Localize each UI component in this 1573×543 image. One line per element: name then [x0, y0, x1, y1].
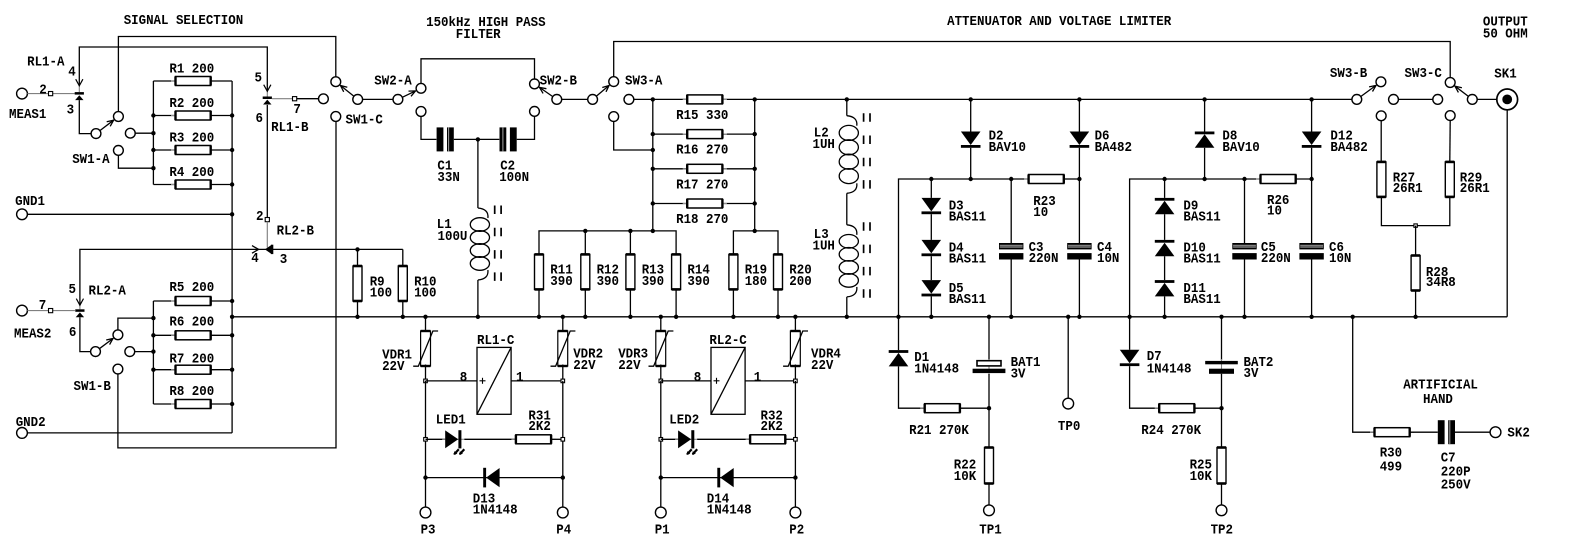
svg-text:RL2-B: RL2-B — [277, 223, 315, 239]
wire D14 row — [661, 477, 796, 479]
svg-text:33N: 33N — [437, 170, 459, 186]
relay contact RL1-B — [263, 97, 272, 105]
svg-text:250V: 250V — [1441, 478, 1471, 494]
battery BAT1 — [973, 359, 1006, 375]
wire R16 left — [653, 133, 687, 135]
relay contact RL1-A — [75, 92, 84, 100]
wire R4 right — [211, 184, 232, 186]
svg-text:6: 6 — [69, 325, 77, 341]
varistor VDR3 — [649, 331, 674, 366]
wire to C3 — [1010, 179, 1012, 243]
svg-text:SW3-B: SW3-B — [1330, 66, 1368, 82]
wire D4 to D5 — [930, 256, 932, 280]
junction — [1219, 406, 1223, 410]
arrow RL2-A pin 5 — [76, 299, 83, 306]
wire D5 to bus — [930, 296, 932, 316]
svg-text:HAND: HAND — [1423, 392, 1453, 408]
wire R1 left — [153, 80, 175, 82]
inductor L2 — [839, 113, 870, 196]
svg-text:SW1-C: SW1-C — [346, 112, 384, 128]
svg-text:10N: 10N — [1097, 251, 1119, 267]
svg-text:R17 270: R17 270 — [676, 177, 728, 193]
wire bus to BAT2 — [1221, 317, 1223, 360]
wire BAT2 to R25 — [1221, 374, 1223, 448]
resistor R13 — [626, 254, 635, 289]
diode D10 — [1155, 240, 1175, 256]
wire R16 right — [723, 133, 755, 135]
node RL1-C pin8 — [424, 379, 428, 383]
svg-text:GND2: GND2 — [16, 415, 46, 431]
svg-text:220N: 220N — [1029, 251, 1059, 267]
wire to D3 — [930, 179, 932, 198]
resistor R22 — [985, 448, 994, 484]
wire R1 right — [211, 80, 232, 82]
svg-text:BAS11: BAS11 — [1183, 292, 1220, 308]
node RL2-C pin8 — [659, 379, 663, 383]
terminal TP0 — [1063, 398, 1074, 409]
wire D10 to D11 — [1164, 256, 1166, 280]
svg-text:4: 4 — [251, 251, 259, 267]
junction — [1242, 177, 1246, 181]
resistor R9 — [353, 266, 362, 301]
svg-text:22V: 22V — [618, 358, 641, 374]
resistor R17 — [683, 164, 727, 173]
svg-text:1N4148: 1N4148 — [473, 503, 518, 519]
inductor L1 — [470, 206, 501, 283]
junction — [753, 97, 757, 101]
svg-text:2K2: 2K2 — [761, 419, 783, 435]
junction — [753, 167, 757, 171]
wire C6 to bus — [1311, 260, 1313, 317]
junction — [793, 315, 797, 319]
wire D9 to D10 — [1164, 214, 1166, 240]
junction — [651, 229, 655, 233]
wire to C5 — [1244, 179, 1246, 243]
wire R27 R29 join — [1381, 197, 1449, 226]
switch SW1-A — [91, 112, 123, 139]
wire to LED1 — [426, 438, 446, 440]
resistor R3 — [171, 146, 215, 155]
svg-text:R8 200: R8 200 — [169, 384, 214, 400]
junction — [628, 315, 632, 319]
wire RL1-A pin4 stub — [78, 86, 80, 92]
wire R19 bottom — [732, 289, 734, 316]
resistor R27 — [1377, 162, 1386, 197]
svg-text:8: 8 — [460, 370, 468, 386]
wire R12 bottom — [584, 289, 586, 316]
node RL1-C pin1 — [561, 379, 565, 383]
wire R18 left — [653, 203, 687, 205]
node LED1 left — [424, 438, 428, 442]
svg-text:BAS11: BAS11 — [1183, 252, 1220, 268]
resistor R16 — [683, 130, 727, 139]
svg-text:50 OHM: 50 OHM — [1483, 27, 1528, 43]
wire to RL1-C pin 8 — [426, 380, 478, 382]
wire — [118, 37, 335, 112]
wire D13 row — [426, 477, 563, 479]
junction — [1077, 177, 1081, 181]
LED LED1 — [442, 430, 465, 455]
junction — [1351, 315, 1355, 319]
wire R10 top — [402, 249, 404, 266]
switch SW1-B contact lower — [113, 364, 123, 374]
wire R30 to C7 — [1410, 431, 1438, 433]
svg-text:1UH: 1UH — [813, 137, 835, 153]
svg-text:MEAS2: MEAS2 — [14, 327, 51, 343]
wire VDR1 to coil rail — [425, 365, 427, 381]
wire — [634, 98, 653, 100]
svg-text:100N: 100N — [499, 170, 529, 186]
svg-text:220N: 220N — [1261, 251, 1291, 267]
junction — [230, 113, 234, 117]
diode D1 — [889, 350, 909, 366]
wire R9 top — [357, 249, 359, 266]
connector SK1 — [1497, 89, 1518, 110]
svg-text:1: 1 — [516, 370, 524, 386]
wire VDR4 to coil rail — [794, 365, 796, 381]
junction — [151, 316, 155, 320]
svg-text:ATTENUATOR AND VOLTAGE LIMITER: ATTENUATOR AND VOLTAGE LIMITER — [947, 14, 1172, 30]
capacitor C4 — [1067, 243, 1091, 260]
varistor VDR4 — [783, 331, 808, 366]
wire to D9 — [1164, 179, 1166, 198]
svg-text:1N4148: 1N4148 — [1147, 361, 1192, 377]
resistor R21 — [920, 404, 964, 413]
svg-text:R5 200: R5 200 — [169, 280, 214, 296]
junction — [230, 368, 234, 372]
wire D12 to C6 — [1311, 148, 1313, 243]
wire bus to VDR2 — [562, 317, 564, 333]
junction — [230, 148, 234, 152]
svg-text:TP1: TP1 — [979, 523, 1001, 539]
wire rail to D12 — [1311, 99, 1313, 131]
wire — [1398, 98, 1432, 100]
svg-text:200: 200 — [789, 274, 811, 290]
svg-text:390: 390 — [642, 274, 664, 290]
svg-text:499: 499 — [1380, 459, 1402, 475]
junction — [151, 148, 155, 152]
resistor R31 — [511, 435, 555, 444]
junction — [1009, 177, 1013, 181]
wire C7 to SK2 — [1455, 431, 1490, 433]
svg-text:10: 10 — [1033, 205, 1048, 221]
resistor R23 — [1024, 175, 1068, 184]
svg-text:8: 8 — [694, 370, 702, 386]
junction — [1162, 315, 1166, 319]
relay contact RL2-A — [75, 309, 84, 317]
diode D13 — [483, 468, 499, 488]
svg-text:FILTER: FILTER — [456, 27, 501, 43]
varistor VDR1 — [413, 331, 438, 366]
wire VDR3 to coil rail — [660, 365, 662, 381]
terminal SK2 — [1490, 427, 1501, 438]
wire bus to D1 — [898, 317, 900, 350]
svg-text:R1 200: R1 200 — [169, 62, 214, 78]
resistor R19 — [729, 254, 738, 289]
junction — [151, 333, 155, 337]
wire GND1 — [27, 213, 232, 215]
wire RL1-C pin 1 — [511, 380, 563, 382]
wire R26 to D12 line — [1295, 178, 1311, 180]
wire — [562, 98, 588, 100]
varistor VDR2 — [551, 331, 576, 366]
terminal GND1 — [17, 209, 28, 220]
wire C4 to bus — [1078, 260, 1080, 317]
junction — [1242, 315, 1246, 319]
wire R14 bottom — [675, 289, 677, 316]
inductor L3 — [839, 222, 870, 299]
wire left column down to P3 — [425, 381, 427, 507]
junction — [1009, 315, 1013, 319]
junction — [651, 148, 655, 152]
switch SW3-A contact right — [624, 95, 634, 105]
svg-text:180: 180 — [745, 274, 767, 290]
resistor R15 — [683, 95, 727, 104]
wire — [135, 351, 154, 353]
wire R13 bottom — [629, 289, 631, 316]
junction — [1077, 315, 1081, 319]
junction — [776, 315, 780, 319]
wire R3 right — [211, 149, 232, 151]
svg-text:3: 3 — [280, 252, 288, 268]
wire R21 to BAT1 node — [960, 407, 989, 409]
switch SW3-C — [1445, 78, 1477, 105]
junction — [355, 315, 359, 319]
wire bus to BAT1 — [988, 317, 990, 360]
junction — [230, 333, 234, 337]
wire L1 to bus — [477, 280, 479, 317]
junction — [1066, 315, 1070, 319]
svg-text:TP0: TP0 — [1058, 419, 1080, 435]
svg-text:10K: 10K — [954, 469, 977, 485]
wire D3 to D4 — [930, 214, 932, 240]
svg-text:22V: 22V — [811, 358, 834, 374]
switch SW3-C contact lower — [1445, 111, 1455, 121]
junction — [845, 315, 849, 319]
wire VDR2 to coil rail — [562, 365, 564, 381]
junction — [230, 182, 234, 186]
svg-text:7: 7 — [293, 102, 301, 118]
diode D3 — [922, 198, 942, 214]
junction — [753, 229, 757, 233]
junction D8 top — [1202, 97, 1206, 101]
svg-text:R6 200: R6 200 — [169, 314, 214, 330]
svg-text:4: 4 — [68, 65, 76, 81]
junction — [423, 315, 427, 319]
junction — [583, 229, 587, 233]
capacitor C1 — [437, 127, 454, 151]
junction — [987, 315, 991, 319]
svg-text:10K: 10K — [1190, 469, 1213, 485]
junction — [561, 315, 565, 319]
switch SW2-B contact lower — [530, 107, 540, 117]
junction — [896, 315, 900, 319]
battery BAT2 — [1205, 359, 1238, 375]
wire R2 left — [153, 115, 175, 117]
svg-text:R24 270K: R24 270K — [1141, 423, 1201, 439]
wire SK1 to bus — [1506, 110, 1508, 317]
net R1-R4 left bus — [152, 81, 154, 185]
svg-text:1: 1 — [754, 370, 762, 386]
svg-text:GND1: GND1 — [15, 194, 45, 210]
contact circle RL1-B output — [319, 94, 329, 104]
wire R20 bottom — [777, 289, 779, 316]
terminal MEAS2 — [17, 305, 28, 316]
wire D7 to R24 — [1130, 366, 1160, 408]
svg-text:R2 200: R2 200 — [169, 96, 214, 112]
junction L2 top — [845, 97, 849, 101]
svg-text:TP2: TP2 — [1211, 523, 1233, 539]
switch SW3-B contact right — [1389, 95, 1399, 105]
junction — [1309, 315, 1313, 319]
terminal P3 — [420, 507, 431, 518]
svg-text:P3: P3 — [421, 523, 436, 539]
wire R6 right — [211, 334, 232, 336]
wire R5 left — [153, 300, 175, 302]
switch SW2-A — [393, 83, 426, 104]
svg-text:2: 2 — [256, 209, 264, 225]
switch SW1-B — [91, 330, 123, 357]
wire to LED2 — [661, 438, 678, 440]
svg-text:2: 2 — [39, 83, 47, 99]
wire R24 to BAT2 node — [1194, 407, 1221, 409]
wire RL2-B pin2 to contact — [266, 222, 268, 248]
wire R13 top — [629, 231, 631, 255]
junction — [651, 167, 655, 171]
junction C1 C2 L1 — [476, 137, 480, 141]
switch SW2-B — [530, 79, 562, 104]
wire bus to TP0 — [1067, 317, 1069, 398]
wire C1 to C2 — [454, 138, 500, 140]
wire BAT1 to R22 — [988, 374, 990, 448]
svg-text:34R8: 34R8 — [1426, 275, 1456, 291]
relay coil RL2-C — [711, 347, 745, 414]
svg-text:100: 100 — [370, 286, 392, 302]
pin square RL1-B pin 7 — [293, 97, 297, 101]
svg-text:SW1-A: SW1-A — [72, 152, 110, 168]
wire to R29 — [1449, 121, 1451, 162]
svg-text:RL1-B: RL1-B — [271, 120, 309, 136]
net limiter left box — [899, 179, 1029, 317]
junction — [230, 315, 234, 319]
terminal TP1 — [984, 505, 995, 516]
wire RL1-B pin6 to RL2-B pin2 — [266, 105, 268, 218]
wire R9 bottom — [357, 301, 359, 317]
junction — [151, 349, 155, 353]
svg-text:7: 7 — [39, 298, 47, 314]
junction — [628, 229, 632, 233]
junction — [583, 315, 587, 319]
wire — [79, 47, 267, 91]
wire R8 left — [153, 403, 175, 405]
svg-text:390: 390 — [550, 274, 572, 290]
svg-text:3V: 3V — [1244, 366, 1259, 382]
svg-text:LED2: LED2 — [669, 413, 699, 429]
svg-text:10N: 10N — [1329, 251, 1351, 267]
junction — [969, 177, 973, 181]
svg-text:390: 390 — [687, 274, 709, 290]
diode D4 — [922, 240, 942, 256]
junction — [1162, 177, 1166, 181]
wire R17 right — [723, 168, 755, 170]
resistor R12 — [581, 254, 590, 289]
wire R11-R14 top rail — [539, 231, 676, 255]
wire rail to D2 — [970, 99, 972, 131]
terminal P4 — [557, 507, 568, 518]
junction D2 top — [969, 97, 973, 101]
wire — [118, 155, 153, 168]
svg-text:1N4148: 1N4148 — [914, 361, 959, 377]
wire rail to D8 — [1204, 99, 1206, 131]
wire R4 left — [153, 184, 175, 186]
terminal P1 — [655, 507, 666, 518]
junction — [651, 132, 655, 136]
net R15-R18 right bus — [754, 99, 756, 231]
svg-text:RL2-C: RL2-C — [709, 333, 747, 349]
svg-text:2K2: 2K2 — [528, 419, 550, 435]
wire — [135, 132, 153, 134]
arrow RL1-B pin 5 — [264, 85, 271, 92]
wire R32 right — [785, 438, 795, 440]
svg-text:10: 10 — [1267, 204, 1282, 220]
svg-text:6: 6 — [256, 111, 264, 127]
node R32 right — [794, 438, 798, 442]
svg-text:26R1: 26R1 — [1460, 181, 1490, 197]
node R31 right — [561, 438, 565, 442]
svg-text:1N4148: 1N4148 — [707, 503, 752, 519]
capacitor C3 — [999, 243, 1023, 260]
svg-text:3: 3 — [67, 102, 75, 118]
wire LED1 to R31 — [464, 438, 516, 440]
svg-text:390: 390 — [597, 274, 619, 290]
wire bus to VDR1 — [425, 317, 427, 333]
wire R31 right — [551, 438, 563, 440]
diode D14 — [717, 468, 733, 488]
wire GND2 — [27, 432, 232, 434]
wire — [118, 318, 153, 330]
svg-text:BAS11: BAS11 — [949, 292, 986, 308]
junction — [731, 315, 735, 319]
junction D6 top — [1077, 97, 1081, 101]
terminal TP2 — [1216, 505, 1227, 516]
svg-text:SIGNAL SELECTION: SIGNAL SELECTION — [124, 13, 244, 29]
wire RL1-B to pin7 — [272, 98, 293, 100]
wire RL1-B pin5 stub — [266, 91, 268, 96]
junction — [1219, 315, 1223, 319]
wire R12 top — [584, 231, 586, 255]
terminal MEAS1 — [17, 88, 28, 99]
resistor R6 — [171, 331, 215, 340]
junction — [753, 132, 757, 136]
switch SW1-C contact lower — [331, 112, 341, 122]
capacitor C2 — [500, 127, 517, 151]
wire SW3-A lower — [614, 122, 653, 151]
net attenuator rail — [653, 98, 1352, 100]
net GND right bus — [231, 81, 233, 433]
svg-text:100U: 100U — [438, 229, 468, 245]
junction — [1413, 315, 1417, 319]
svg-text:SW3-A: SW3-A — [625, 73, 663, 89]
svg-text:SW3-C: SW3-C — [1405, 66, 1443, 82]
svg-text:22V: 22V — [382, 359, 405, 375]
wire R7 right — [211, 369, 232, 371]
resistor R24 — [1155, 404, 1199, 413]
capacitor C6 — [1299, 243, 1323, 260]
wire bus to VDR3 — [660, 317, 662, 333]
junction — [230, 402, 234, 406]
wire HPF top rail — [421, 59, 535, 84]
svg-text:P2: P2 — [789, 523, 804, 539]
